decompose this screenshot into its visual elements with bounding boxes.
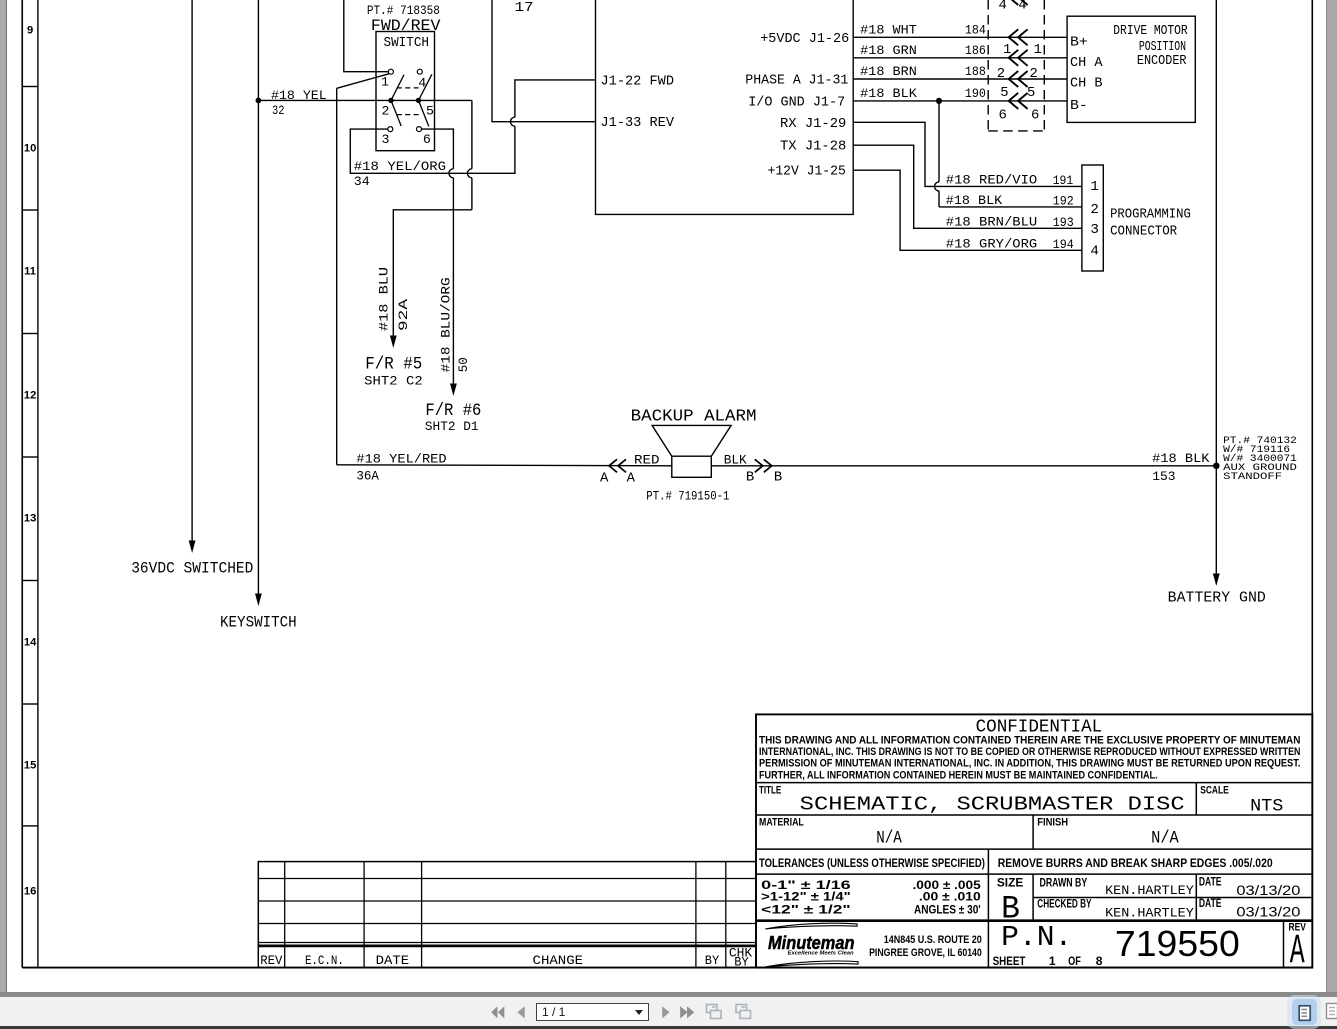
junction dot node 32 [256,98,262,104]
drawing frame right border [1311,0,1313,968]
revision table column lines [284,862,286,968]
wire +12V J1-25 to programming pin 4 (#18 GRY/ORG 194) [853,170,1082,250]
wire TX J1-28 to programming pin 3 (#18 BRN/BLU 193) [853,145,1082,228]
switch pin 5 dot [416,98,421,103]
revision table thick header line [258,945,756,948]
wire #18 BLK 190 encoder B- [853,100,1067,102]
wire 192 horizontal (#18 BLK) [939,206,1082,208]
switch box FWD/REV [376,32,435,151]
backup alarm speaker symbol [652,425,731,456]
drawing frame bottom border [22,967,1312,969]
wire #18 YEL/RED vertical drop [336,88,338,465]
left border ruler band inner line [37,0,39,968]
backup alarm body [672,456,712,477]
wire #18 BLK 153 from alarm to battery gnd [711,465,1216,467]
minuteman logo [765,923,858,967]
wire keyswitch vertical [257,0,259,595]
revision table row lines [258,878,756,880]
switch pin 1 circle [388,69,393,74]
switch mechanical link dashes [397,87,422,89]
encoder connector chevron top cut [1009,0,1019,5]
switch pin 4 circle [417,69,422,74]
title block line under confidential [756,782,1312,784]
aux ground standoff junction dot [1213,463,1220,470]
revision table box [258,862,756,968]
switch blade pin 5 [419,74,432,126]
wire 36VDC switched vertical [191,0,193,542]
line under tolerances header [756,873,1312,875]
wire #18 GRN 186 encoder CH A [853,57,1067,59]
title/scale divider [1195,783,1197,815]
date divider [1195,874,1197,920]
switch pin 6 circle [417,127,422,132]
wire switch pin 6 down to F/R #6 [422,129,454,169]
wire switch pin 3 to J1-22 FWD (#18 YEL/ORG 34) [350,126,515,173]
line under material row [756,848,1312,850]
connector B chevrons [755,459,763,472]
wire J1-33 REV up [492,0,596,122]
switch pin 3 circle [388,127,393,132]
battery ground vertical wire [1215,0,1217,466]
size/drawnby divider [1032,874,1034,920]
encoder connector dashed box [987,0,989,131]
wire #18 BRN 188 encoder CH B [853,78,1067,80]
switch pin 2 dot [388,98,393,103]
line under title row [756,814,1312,816]
wire #18 YEL 32 horizontal to switch pins 2 and 5 [258,99,472,101]
left border ruler band outer line [21,0,23,968]
line between drawn and checked [1033,897,1312,899]
programming connector box [1082,165,1103,271]
wire #18 BLK 190 drop to 192 [938,101,940,182]
wire switch pin 5 down [471,100,473,168]
wire jog to F/R #5 [393,210,472,337]
rev divider [1283,921,1285,968]
material/finish divider [1032,815,1034,849]
wire RX J1-29 to programming pin 1 (#18 RED/VIO 191) [853,122,1082,186]
thick line above bottom row [756,919,1312,922]
wire from controller down to switch pin 1 [344,0,389,72]
tolerances divider [987,849,989,968]
wire #18 WHT 184 encoder B+ [853,36,1067,38]
wire angled from pin 1 to YEL/RED drop [337,73,393,89]
junction dot on #18 BLK 190 [936,98,942,104]
switch blade pin 2 [391,75,404,126]
connector A chevrons [609,459,617,472]
wire #18 YEL/RED 36A horizontal to backup alarm [337,465,672,466]
title block outer box [756,714,1312,967]
drive motor position encoder box [1067,16,1195,122]
ruler zone ticks [22,86,38,88]
controller box [596,0,854,214]
